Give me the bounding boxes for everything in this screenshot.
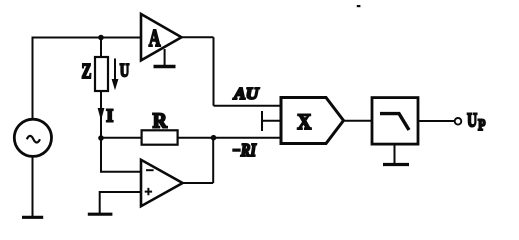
speck mark top <box>357 5 361 7</box>
op-amp minus sign <box>146 169 154 171</box>
op-amp N1 <box>141 160 183 206</box>
terminal circle Up <box>455 118 462 125</box>
wire Z bottom to lower junction <box>100 91 102 138</box>
svg-text:AU: AU <box>233 84 259 103</box>
wire source to ground <box>32 156 34 216</box>
wire lower junction to op-amp inverting input <box>101 137 142 172</box>
node junction dot at top of Z <box>98 35 104 41</box>
svg-text:U: U <box>467 110 477 132</box>
amplifier A <box>141 14 182 60</box>
source G (AC source) <box>14 119 51 156</box>
svg-text:I: I <box>106 106 113 126</box>
svg-text:Z: Z <box>82 59 92 83</box>
svg-text:A: A <box>149 26 161 52</box>
svg-text:−RI: −RI <box>232 140 257 160</box>
wire R output to multiplier X lower input <box>178 137 282 139</box>
low-pass filter response symbol <box>380 114 409 130</box>
svg-text:X: X <box>297 109 311 134</box>
op-amp plus sign <box>145 188 152 195</box>
resistor R <box>142 130 178 144</box>
ground under amplifier A <box>164 49 166 65</box>
source tilde symbol <box>27 136 40 143</box>
multiplier X middle input stub with tick <box>262 111 282 131</box>
wire filter output to terminal <box>418 120 455 122</box>
multiplier X <box>281 98 344 144</box>
svg-text:U: U <box>120 61 130 81</box>
ground under op-amp non-inverting input <box>88 213 113 216</box>
arrow I (current) <box>98 108 105 121</box>
wire top horizontal from source loop to amplifier A input <box>32 37 142 39</box>
wire junction to resistor R <box>101 137 142 139</box>
wire left vertical down to source <box>32 37 34 120</box>
node junction dot at R input <box>98 135 104 141</box>
wire op-amp output to feedback <box>182 182 213 184</box>
ground under filter <box>394 144 396 164</box>
low-pass filter block <box>372 98 418 145</box>
wire feedback vertical <box>212 138 214 183</box>
wire op-amp non-inverting input <box>100 192 142 214</box>
svg-text:P: P <box>478 117 486 134</box>
arrow U (voltage across Z) <box>112 59 119 91</box>
node junction dot at feedback <box>211 135 217 141</box>
impedance Z box <box>95 57 108 91</box>
svg-text:R: R <box>153 108 168 132</box>
wire multiplier X output to filter <box>344 120 373 122</box>
wire junction to Z top <box>100 38 102 58</box>
wire amplifier A output to multiplier X upper input <box>182 37 282 106</box>
ground under source <box>22 216 43 219</box>
